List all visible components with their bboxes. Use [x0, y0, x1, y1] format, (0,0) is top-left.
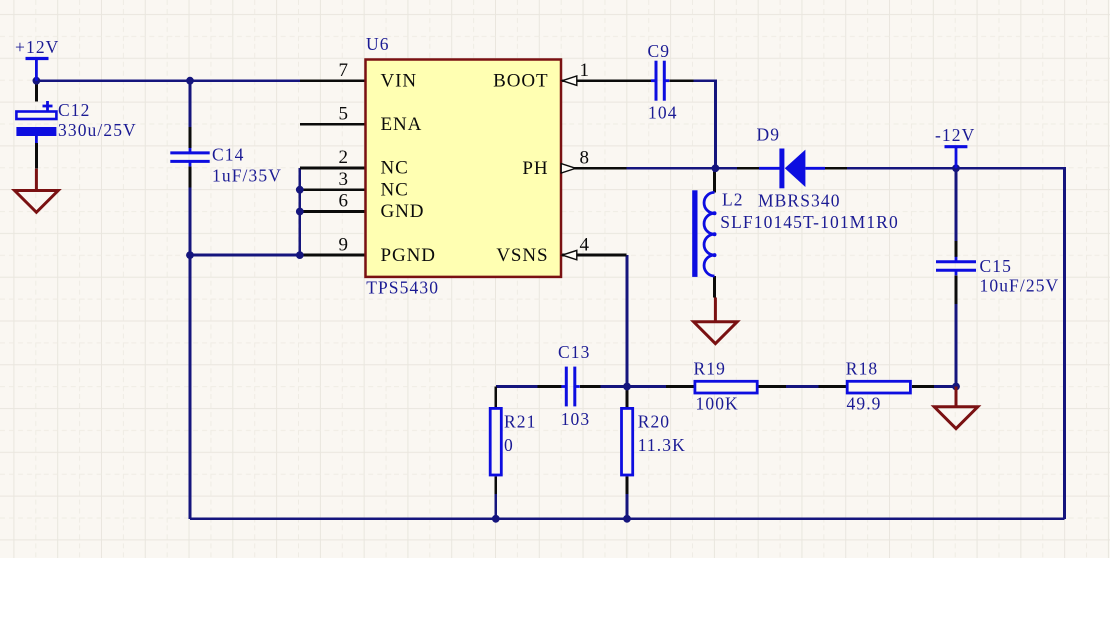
svg-text:1uF/35V: 1uF/35V	[212, 166, 282, 186]
svg-text:3: 3	[339, 169, 349, 190]
svg-text:GND: GND	[381, 201, 425, 222]
svg-text:2: 2	[339, 147, 349, 168]
svg-text:R19: R19	[694, 359, 726, 379]
svg-text:ENA: ENA	[381, 114, 423, 135]
svg-text:C15: C15	[980, 256, 1012, 276]
svg-text:PGND: PGND	[381, 245, 436, 266]
svg-text:0: 0	[504, 435, 514, 455]
svg-text:104: 104	[648, 103, 678, 123]
svg-text:+12V: +12V	[15, 37, 59, 57]
svg-text:8: 8	[580, 148, 590, 169]
svg-text:BOOT: BOOT	[493, 70, 548, 91]
svg-text:NC: NC	[381, 158, 409, 179]
svg-text:D9: D9	[757, 124, 781, 144]
svg-text:L2: L2	[722, 190, 744, 210]
svg-text:49.9: 49.9	[847, 394, 882, 414]
svg-text:TPS5430: TPS5430	[366, 278, 439, 298]
svg-text:7: 7	[339, 60, 349, 81]
svg-text:11.3K: 11.3K	[638, 435, 686, 455]
svg-text:C9: C9	[648, 41, 671, 61]
svg-text:NC: NC	[381, 179, 409, 200]
svg-text:MBRS340: MBRS340	[758, 191, 841, 211]
svg-text:VSNS: VSNS	[496, 245, 548, 266]
svg-text:VIN: VIN	[381, 70, 417, 91]
svg-text:R21: R21	[504, 412, 536, 432]
svg-text:C12: C12	[58, 100, 90, 120]
svg-text:-12V: -12V	[935, 125, 975, 145]
svg-text:R20: R20	[638, 412, 670, 432]
svg-text:U6: U6	[366, 34, 390, 54]
svg-text:PH: PH	[522, 158, 548, 179]
svg-text:1: 1	[580, 60, 590, 81]
svg-text:100K: 100K	[696, 394, 739, 414]
svg-text:C13: C13	[558, 342, 590, 362]
svg-text:SLF10145T-101M1R0: SLF10145T-101M1R0	[720, 212, 899, 232]
svg-text:R18: R18	[846, 359, 878, 379]
svg-text:9: 9	[339, 234, 349, 255]
svg-text:10uF/25V: 10uF/25V	[980, 276, 1060, 296]
svg-text:C14: C14	[212, 145, 244, 165]
svg-text:5: 5	[339, 104, 349, 125]
svg-text:103: 103	[561, 409, 591, 429]
svg-text:4: 4	[580, 234, 590, 255]
svg-text:6: 6	[339, 191, 349, 212]
svg-text:330u/25V: 330u/25V	[58, 120, 137, 140]
